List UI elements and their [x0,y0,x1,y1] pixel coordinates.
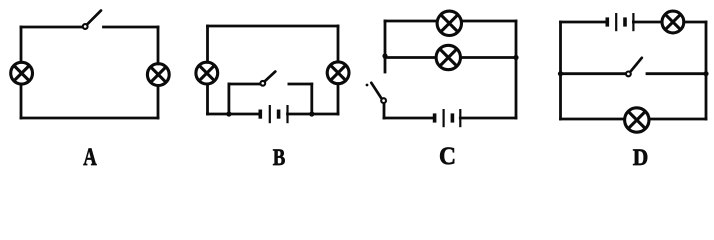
wire B bottom left segment [208,113,261,116]
wire A left vertical [20,27,23,62]
node C right junction [513,55,518,60]
lamp L2(C) [436,45,460,69]
wire A left vertical lower [20,84,23,118]
wire A right vertical [157,27,160,64]
wire B branch left vertical [227,84,230,114]
svg-text:A: A [83,142,97,171]
wire D top right segment [684,21,706,24]
wire A top-right segment [104,26,159,29]
lamp L1(C) [437,11,461,35]
wire B branch top-left segment [229,83,260,86]
node B right junction [309,111,314,116]
wire C top left segment [385,20,437,23]
wire D left vertical [559,22,562,119]
wire D bottom right segment [649,118,706,121]
wire A top-left segment [21,26,82,29]
wire B branch right vertical [310,84,313,114]
wire B bottom right segment [288,113,339,116]
battery G(C) [435,109,461,127]
wire B right vertical lower [337,84,340,114]
wire C top right segment [462,20,517,23]
wire A bottom [21,117,158,120]
node D right junction [703,71,708,76]
wire C left vertical [384,21,387,72]
wire A right vertical lower [157,86,160,118]
wire D top left segment [561,21,608,24]
wire B branch top-right segment [289,83,312,86]
switch S(C) pivot [381,98,386,103]
wire C middle right segment [461,56,517,59]
lamp L2(D) [625,108,649,132]
switch S(B) blade [265,72,276,82]
lamp L1(B) [196,62,218,84]
battery G(B) [260,105,287,123]
switch S(C) blade [371,83,381,99]
wire C bottom left segment [384,117,434,120]
wire C middle left segment [385,56,436,59]
lamp L1(A) [11,62,33,84]
node B left junction [226,111,231,116]
wire B left vertical lower [206,84,209,114]
wire B right vertical upper [337,26,340,62]
lamp L2(B) [327,62,349,84]
svg-text:B: B [273,145,286,170]
wire C right vertical [515,21,518,118]
wire B top [208,25,339,28]
battery G(D) [607,13,633,31]
node C left junction [382,53,387,58]
lamp L2(A) [147,64,169,86]
switch S(B) pivot [260,81,265,86]
node D left junction [558,71,563,76]
switch S(A) pivot [83,24,88,29]
wire D bottom left segment [561,118,625,121]
switch S(A) blade [87,11,101,25]
svg-text:C: C [439,141,456,170]
switch S(D) pivot [626,72,631,77]
wire D middle right segment [647,72,706,75]
wire C bottom right segment [460,117,516,120]
wire D right vertical [705,22,708,119]
speck noise [366,84,369,87]
lamp L1(D) [662,11,684,33]
wire B left vertical upper [206,26,209,62]
switch S(D) blade [630,58,641,72]
svg-text:D: D [633,145,649,170]
wire C pivot to bottom [383,104,386,119]
wire D top middle segment [633,21,662,24]
wire D middle left segment [561,72,626,75]
